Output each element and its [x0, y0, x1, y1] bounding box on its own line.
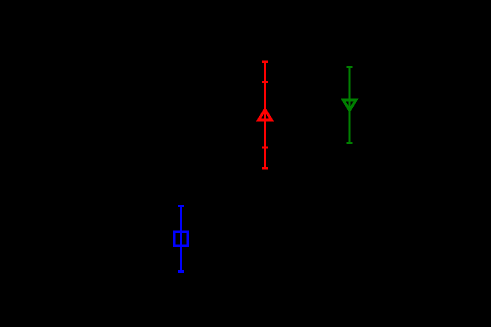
green top cap [347, 66, 353, 68]
blue open square marker [174, 232, 188, 246]
green bottom cap [347, 142, 353, 144]
green open triangle-down marker [343, 100, 356, 110]
wire green vertical error line [349, 67, 351, 143]
wire blue vertical error line [180, 206, 182, 271]
errorbar series 2 (red, double error bars) [259, 62, 272, 169]
errorbar series 3 (green) [343, 67, 356, 143]
red open triangle-up marker [259, 110, 272, 120]
red outer bottom cap [262, 167, 268, 170]
red inner bottom cap [262, 147, 268, 149]
blue bottom cap [178, 270, 184, 273]
wire red vertical error line [264, 62, 266, 168]
red inner top cap [262, 81, 268, 83]
red outer top cap [262, 60, 268, 63]
blue top cap [178, 205, 184, 207]
errorbar series 1 (blue) [174, 206, 188, 271]
